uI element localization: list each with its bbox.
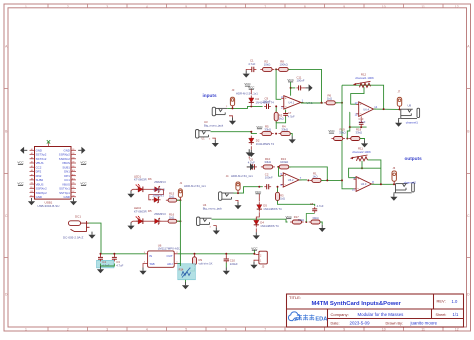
ground left of C1 <box>246 69 249 70</box>
wire R6 to long vertical rail <box>335 102 342 104</box>
svg-text:ZMM3V3: ZMM3V3 <box>154 212 166 216</box>
svg-text:10: 10 <box>382 327 386 331</box>
wire pot to ground <box>185 280 187 282</box>
title block frame <box>287 294 464 327</box>
op-amp U4.3 <box>356 177 371 192</box>
wire long rail to U4.3 pin10 <box>342 187 354 189</box>
resistor R5 <box>260 133 274 135</box>
svg-text:USB-3004-B-SU: USB-3004-B-SU <box>37 204 59 208</box>
svg-text:GND: GND <box>36 195 42 199</box>
svg-text:100nF: 100nF <box>263 100 271 104</box>
svg-text:100nF: 100nF <box>297 79 305 83</box>
svg-text:IN: IN <box>149 254 152 258</box>
wire R19/R18 junction up to pin12 rail <box>347 127 350 138</box>
wire R3b bottom to C5 rail <box>278 201 315 207</box>
resistor R10 33k <box>261 166 275 168</box>
svg-text:B1: B1 <box>72 149 74 151</box>
svg-text:4.7uF: 4.7uF <box>248 62 255 66</box>
svg-text:8: 8 <box>304 5 306 9</box>
wire regulator OUT rail <box>178 253 255 255</box>
wire feedback rail <box>275 106 277 111</box>
svg-text:B5: B5 <box>72 183 74 185</box>
wire R12 wiper to opamp U6.4 pin13 <box>351 87 364 104</box>
wire LED1 to D6 <box>145 188 153 190</box>
svg-text:100kΩ: 100kΩ <box>280 63 288 67</box>
svg-text:VCC: VCC <box>287 78 294 82</box>
feedback loop top channel1 <box>342 85 384 109</box>
svg-text:inputs: inputs <box>203 93 217 98</box>
DC jack DC1 <box>69 221 90 232</box>
svg-text:VCC: VCC <box>17 182 24 186</box>
zener D5 <box>152 220 161 222</box>
ground under D2 <box>248 150 255 157</box>
svg-text:A2: A2 <box>31 152 33 155</box>
ground arrow bottom-right of USB1 <box>70 198 77 205</box>
wire U6.4 pin12 down <box>350 112 367 127</box>
VCC and diode clamp D5b <box>258 186 260 188</box>
ground right of C11 <box>303 87 306 89</box>
ground under jack U7 <box>394 192 396 195</box>
svg-text:U8: U8 <box>408 104 412 108</box>
svg-text:HDR-M-2.54_1x1: HDR-M-2.54_1x1 <box>236 91 258 95</box>
capacitor C5 4.7uF <box>314 207 316 209</box>
svg-text:U6.4: U6.4 <box>363 107 369 111</box>
capacitor C9 <box>264 105 266 107</box>
svg-text:B4: B4 <box>31 183 33 185</box>
feedback loop channel2 <box>349 168 381 178</box>
capacitor C2 100nF <box>264 186 266 188</box>
svg-text:4.7pF: 4.7pF <box>359 120 366 124</box>
svg-text:juanito moore: juanito moore <box>410 320 438 325</box>
svg-text:channel2: channel2 <box>404 181 417 185</box>
ground left of LED1 <box>131 189 138 190</box>
USB1 pins right <box>71 149 76 151</box>
svg-text:U4.1: U4.1 <box>288 101 294 105</box>
svg-text:9: 9 <box>343 327 345 331</box>
svg-text:VCC: VCC <box>286 215 293 219</box>
ground at DC1 sleeve <box>88 232 95 239</box>
junction R2/R8 <box>275 68 277 70</box>
wire R9 bottom to pot <box>190 268 195 271</box>
svg-text:5: 5 <box>185 327 187 331</box>
svg-text:DC-005-2.0A-Z: DC-005-2.0A-Z <box>63 235 84 239</box>
wire LED2 to D5 <box>145 220 153 222</box>
svg-text:outputs: outputs <box>405 156 423 161</box>
USB1 pins left <box>30 149 35 151</box>
ground under jack U8 <box>399 118 401 119</box>
wire caps to ground <box>100 264 102 267</box>
svg-text:Modular for the Masses: Modular for the Masses <box>358 312 405 317</box>
wire R1 to long rail <box>321 179 342 181</box>
svg-text:M4TM SynthCard Inputs&Power: M4TM SynthCard Inputs&Power <box>312 301 402 307</box>
svg-text:A9: A9 <box>72 165 74 168</box>
svg-text:Drawn By:: Drawn By: <box>386 321 404 325</box>
svg-text:1kΩ: 1kΩ <box>313 175 318 179</box>
resistor R17 <box>290 221 304 223</box>
capacitor C13 4.7pF <box>360 121 362 123</box>
svg-text:4.7uF: 4.7uF <box>116 264 123 268</box>
ground top of C6 <box>246 149 253 156</box>
wire J5 pin1 to ground <box>254 260 256 261</box>
wire zener D6 to zener D7 s-bend <box>149 189 164 200</box>
EDA logo <box>288 312 327 322</box>
ground under jack U5 <box>235 200 238 202</box>
svg-text:100kΩ: 100kΩ <box>280 160 288 164</box>
LED LED1 <box>136 188 145 190</box>
svg-text:100nF: 100nF <box>265 176 273 180</box>
wire U6.2 output to R1 <box>299 179 307 181</box>
svg-text:33kΩ: 33kΩ <box>298 218 304 222</box>
junction dot C4 rail <box>100 253 102 255</box>
svg-text:VCC: VCC <box>256 125 263 129</box>
wire TAB to ground <box>143 264 146 268</box>
svg-text:ADJ: ADJ <box>167 262 173 266</box>
resistor R1 1k <box>310 179 324 181</box>
svg-text:KT-0603R: KT-0603R <box>134 210 147 214</box>
svg-text:1kΩ: 1kΩ <box>327 97 332 101</box>
svg-text:3: 3 <box>106 327 108 331</box>
op-amp U4.1 <box>284 96 301 109</box>
jack U5 <box>219 192 234 201</box>
resistor R14b 100k <box>277 166 291 168</box>
ground under jack U2 <box>212 138 215 140</box>
svg-text:12: 12 <box>455 5 459 9</box>
wire U6.2 minus input <box>273 186 281 188</box>
svg-text:VCC: VCC <box>80 182 87 186</box>
svg-text:7: 7 <box>264 5 266 9</box>
potentiometer R11 channel2 <box>357 157 368 161</box>
svg-text:B8: B8 <box>72 195 74 197</box>
svg-text:U6.2: U6.2 <box>288 178 294 182</box>
frame column ticks bottom <box>47 327 49 331</box>
svg-text:6: 6 <box>225 5 227 9</box>
svg-text:−: − <box>284 183 286 187</box>
wire J1 rail down to pot <box>179 200 181 266</box>
svg-text:Sheet:: Sheet: <box>436 313 447 317</box>
svg-text:3: 3 <box>106 5 108 9</box>
resistor R6 1k <box>324 102 338 104</box>
svg-text:8: 8 <box>304 327 306 331</box>
wire D5 to R16 <box>160 220 166 222</box>
capacitor C7 4.7pF <box>285 111 287 113</box>
wire R8 right to opamp output node <box>288 69 321 102</box>
svg-text:REV:: REV: <box>437 299 446 304</box>
svg-text:9: 9 <box>343 5 345 9</box>
svg-text:1/1: 1/1 <box>453 312 459 317</box>
svg-text:B9: B9 <box>72 162 74 164</box>
ground right of R18 <box>361 140 368 147</box>
svg-text:D5: D5 <box>148 209 152 213</box>
svg-text:LM1117MPX-ADJ: LM1117MPX-ADJ <box>158 247 181 251</box>
svg-text:+: + <box>284 173 286 177</box>
wire R16b to ground <box>320 222 322 225</box>
svg-text:33kΩ: 33kΩ <box>312 216 318 220</box>
op-amp U6.4 <box>359 102 374 117</box>
svg-text:Big_mono_jack: Big_mono_jack <box>203 206 223 210</box>
svg-text:1N4148WS T4: 1N4148WS T4 <box>256 142 275 146</box>
svg-text:HDR-M-2.54_1x1: HDR-M-2.54_1x1 <box>184 184 206 188</box>
jack U2 (cv input) <box>196 130 211 139</box>
resistor R18 <box>349 138 363 140</box>
svg-text:C5: C5 <box>310 202 314 206</box>
wire U4.3 output to jack <box>372 183 396 185</box>
svg-text:−: − <box>285 105 287 109</box>
svg-text:B6: B6 <box>72 187 74 189</box>
svg-text:B11: B11 <box>30 191 33 193</box>
svg-text:A11: A11 <box>72 173 75 176</box>
wire DC1 to regulator input rail <box>89 223 146 254</box>
wire ADJ down to trim network <box>178 264 181 267</box>
svg-text:VCC: VCC <box>328 129 335 133</box>
ground under C4/C3 <box>97 266 104 273</box>
ground right of R16b <box>319 225 326 232</box>
svg-text:R14: R14 <box>179 267 184 271</box>
svg-text:B10: B10 <box>30 187 33 189</box>
USB1 shield pin top <box>48 142 50 147</box>
svg-text:VCC: VCC <box>248 85 255 89</box>
svg-text:B7: B7 <box>72 191 74 193</box>
connector J5 <box>259 251 267 264</box>
svg-text:1N4148WS T4: 1N4148WS T4 <box>260 224 279 228</box>
ground under D4b <box>253 232 260 239</box>
svg-text:Big_mono_jack: Big_mono_jack <box>204 123 224 127</box>
svg-text:5: 5 <box>185 5 187 9</box>
USB connector USB1 <box>35 147 72 200</box>
svg-text:1: 1 <box>25 5 27 9</box>
svg-text:DC1: DC1 <box>75 214 81 218</box>
svg-text:ZMM3V3: ZMM3V3 <box>153 193 165 197</box>
resistor R19 <box>331 138 345 140</box>
svg-text:6: 6 <box>225 327 227 331</box>
svg-text:EDA: EDA <box>315 316 327 322</box>
svg-text:A1: A1 <box>31 148 33 151</box>
header J7 <box>397 97 401 106</box>
wire R13 right to opamp output node <box>289 167 328 181</box>
svg-text:220uF: 220uF <box>230 262 238 266</box>
svg-text:10: 10 <box>382 5 386 9</box>
junction R10/R13 <box>278 166 280 168</box>
wire R18 to ground <box>360 139 365 141</box>
output jack U8 channel1 <box>401 108 420 118</box>
svg-text:4.7pF: 4.7pF <box>288 114 295 118</box>
resistor R8 100k <box>276 68 290 70</box>
frame row ticks left <box>4 88 8 90</box>
svg-text:channel1 100K: channel1 100K <box>355 76 374 80</box>
zener D6 <box>152 188 161 190</box>
svg-text:1kΩ: 1kΩ <box>169 195 174 199</box>
wire opamp U4.1 output to R6 <box>301 102 323 104</box>
ground arrow top-right of USB1 <box>78 147 85 154</box>
svg-text:7: 7 <box>264 327 266 331</box>
svg-text:33kΩ: 33kΩ <box>264 160 271 164</box>
regulator U6 LM1117MPX-ADJ <box>148 251 175 267</box>
svg-text:B12: B12 <box>30 195 33 197</box>
capacitor C3 <box>113 254 115 257</box>
resistor R16 <box>166 220 179 222</box>
svg-text:Date:: Date: <box>331 321 340 325</box>
svg-text:+: + <box>285 96 287 100</box>
ground under pot <box>182 282 189 289</box>
svg-text:TAB: TAB <box>149 262 154 266</box>
svg-text:1kΩ: 1kΩ <box>169 216 174 220</box>
wire jack U1 tip to clamp node <box>227 106 262 108</box>
svg-text:KT-0603R: KT-0603R <box>134 178 147 182</box>
svg-text:TITLE:: TITLE: <box>289 295 301 300</box>
ground under jack U1 <box>229 116 233 118</box>
svg-text:GND: GND <box>63 195 69 199</box>
wire divider junction down to +input <box>276 69 281 99</box>
resistor R16b <box>309 221 323 223</box>
op-amp U6.2 <box>283 173 299 187</box>
svg-text:1kΩ: 1kΩ <box>280 197 285 201</box>
diode D4b 1N4148WS <box>256 212 259 219</box>
jack U1 (big_mono_jack) <box>212 107 227 116</box>
svg-text:VCC: VCC <box>251 246 258 250</box>
ground arrow top-left of USB1 <box>20 147 27 154</box>
frame column ticks top <box>47 4 49 8</box>
capacitor C4 (selected highlight) <box>97 260 115 268</box>
wire jack U2 tip to R5 row <box>211 132 257 134</box>
svg-text:11: 11 <box>421 327 425 331</box>
svg-text:−: − <box>357 187 359 191</box>
wire R15 to J1 junction <box>177 199 181 201</box>
svg-text:ZMM3V3: ZMM3V3 <box>154 180 166 184</box>
resistor R9 volt trim <box>194 255 196 267</box>
wire jack U6b tip to R17 row <box>212 219 288 222</box>
svg-text:1.0: 1.0 <box>452 299 458 304</box>
wire U6.4 output junction <box>374 108 400 110</box>
svg-text:1kΩ: 1kΩ <box>279 117 284 121</box>
svg-text:33kΩ: 33kΩ <box>264 128 271 132</box>
ground arrow bottom-left of USB1 <box>28 198 35 205</box>
svg-text:2: 2 <box>67 5 69 9</box>
svg-text:+: + <box>357 177 359 181</box>
resistor R2 10k <box>260 68 274 70</box>
wire R11 wiper to loop <box>361 161 363 168</box>
wire R11 right end down to output <box>368 160 381 184</box>
svg-text:4: 4 <box>146 327 148 331</box>
svg-text:1: 1 <box>25 327 27 331</box>
svg-text:OUT: OUT <box>166 254 172 258</box>
capacitor C11 100nF <box>296 87 298 89</box>
wire divider junction down to +input U6.2 <box>279 167 282 176</box>
wire R4 to ground <box>290 134 292 137</box>
svg-text:VCC: VCC <box>255 190 262 194</box>
svg-text:HDR-M-2.54_1x1: HDR-M-2.54_1x1 <box>231 174 253 178</box>
svg-text:volt trim 1K: volt trim 1K <box>199 261 213 265</box>
jack U6b (cv input 2) <box>197 217 212 226</box>
ground left of LED2 <box>131 221 138 222</box>
svg-text:A5: A5 <box>31 165 33 168</box>
svg-text:A6: A6 <box>31 169 33 172</box>
svg-text:A3: A3 <box>31 156 33 159</box>
resistor R3 feedback <box>275 110 277 123</box>
svg-text:A10: A10 <box>72 169 75 172</box>
svg-text:A8: A8 <box>31 178 33 181</box>
svg-text:−: − <box>360 112 362 116</box>
svg-text:A4: A4 <box>31 161 33 164</box>
resistor R15 <box>166 199 179 201</box>
svg-text:4.7uF: 4.7uF <box>317 204 324 208</box>
header J4 <box>236 182 240 190</box>
junction dot C3 rail <box>113 253 115 255</box>
svg-text:Company:: Company: <box>331 312 349 317</box>
svg-text:2023-5-09: 2023-5-09 <box>350 320 371 325</box>
header J1 <box>178 189 182 197</box>
output jack U7 channel2 <box>396 183 415 193</box>
potentiometer R12 channel1 <box>360 83 371 87</box>
svg-text:channel2 100K: channel2 100K <box>352 150 371 154</box>
svg-text:U4.3: U4.3 <box>361 182 367 186</box>
svg-text:12: 12 <box>455 327 459 331</box>
ground under C10 <box>223 268 230 275</box>
svg-text:VCC: VCC <box>80 161 87 165</box>
svg-text:B2: B2 <box>72 153 74 155</box>
resistor R4 <box>279 133 293 135</box>
svg-text:33kΩ: 33kΩ <box>339 131 346 135</box>
svg-text:33kΩ: 33kΩ <box>281 128 288 132</box>
svg-text:+: + <box>360 103 362 107</box>
ground under jack U6b <box>213 226 216 228</box>
ground right of R4 <box>289 136 296 143</box>
LED LED2 <box>136 220 145 222</box>
wire R16 to vertical rail <box>177 220 181 222</box>
svg-text:4: 4 <box>146 5 148 9</box>
long vertical rail to U4.3 <box>341 85 343 187</box>
svg-text:33kΩ: 33kΩ <box>356 131 363 135</box>
svg-text:A12: A12 <box>72 178 75 181</box>
header J6 <box>392 171 396 181</box>
svg-text:channel1: channel1 <box>406 120 419 124</box>
potentiometer R14 (selected highlight) <box>178 264 196 280</box>
header J3 <box>230 97 234 106</box>
frame row ticks right <box>467 88 471 90</box>
capacitor C10 220uF <box>225 253 227 255</box>
diode D2 clamp to ground <box>250 131 252 133</box>
svg-text:A7: A7 <box>31 173 33 176</box>
svg-text:VCC: VCC <box>17 161 24 165</box>
resistor R3b feedback <box>277 190 279 202</box>
ground left of C6 <box>247 166 250 168</box>
svg-text:D6: D6 <box>148 177 152 181</box>
svg-text:2: 2 <box>67 327 69 331</box>
zener D7 <box>152 199 161 201</box>
wire jack U5 tip to C2 rail <box>234 187 263 193</box>
svg-text:10kΩ: 10kΩ <box>264 63 271 67</box>
svg-text:1N4148WS T4: 1N4148WS T4 <box>263 207 282 211</box>
diode D5b 1N4148WS <box>258 202 260 211</box>
svg-text:B3: B3 <box>72 157 74 159</box>
svg-text:4.7uF: 4.7uF <box>248 161 255 165</box>
svg-text:11: 11 <box>421 5 425 9</box>
